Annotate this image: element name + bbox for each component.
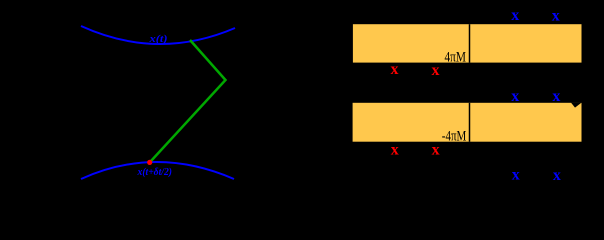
svg-text:x: x [511,88,519,105]
particle trajectory (green polyline) [151,40,226,161]
wall curve bottom [81,162,234,179]
slab top divider [469,24,471,62]
slab bottom (magnetized bar) [353,103,582,142]
svg-text:-4πM: -4πM [442,128,467,144]
arrowhead notch on slab bottom [571,103,582,108]
svg-text:x: x [553,167,561,184]
svg-text:x: x [512,167,520,184]
svg-text:4πM: 4πM [445,49,467,65]
svg-text:x(t): x(t) [148,34,167,45]
wall curve top (moving wall x(t)) [81,26,235,44]
svg-text:x: x [552,88,560,105]
svg-text:x(t+δt/2): x(t+δt/2) [137,167,172,178]
svg-text:x: x [391,141,399,158]
svg-text:x: x [511,7,519,24]
svg-text:x: x [432,62,440,79]
svg-text:x: x [391,61,399,78]
svg-text:x: x [552,8,560,25]
svg-text:x: x [432,141,440,158]
slab top (magnetized bar) [353,24,582,62]
collision point (red dot) [147,160,152,165]
slab bottom divider [469,103,471,142]
